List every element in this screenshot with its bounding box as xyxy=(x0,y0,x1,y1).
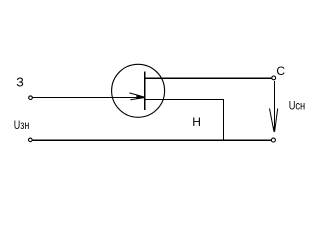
svg-text:Uсн: Uсн xyxy=(289,98,306,112)
svg-text:З: З xyxy=(16,75,24,89)
wire: bottom rail xyxy=(32,139,271,141)
voltage arrow Uсн: arrowhead xyxy=(270,109,278,133)
wire: gate lead xyxy=(33,97,145,99)
svg-text:Uзн: Uзн xyxy=(14,118,30,132)
input terminal node (bottom left) xyxy=(29,138,33,142)
wire: source drop to bottom rail xyxy=(223,99,225,141)
wire: source lead xyxy=(145,99,224,101)
drain terminal node xyxy=(272,76,276,80)
transistor VT1 channel bar xyxy=(144,71,146,109)
voltage arrow Uсн: stem xyxy=(273,81,275,132)
wire: drain lead xyxy=(145,77,272,79)
svg-text:С: С xyxy=(276,64,285,78)
output terminal node (bottom right) xyxy=(271,138,275,142)
gate terminal node xyxy=(29,96,33,100)
svg-text:Н: Н xyxy=(192,115,201,129)
transistor VT1 envelope circle xyxy=(112,64,165,117)
transistor VT1 gate arrow xyxy=(129,93,145,100)
